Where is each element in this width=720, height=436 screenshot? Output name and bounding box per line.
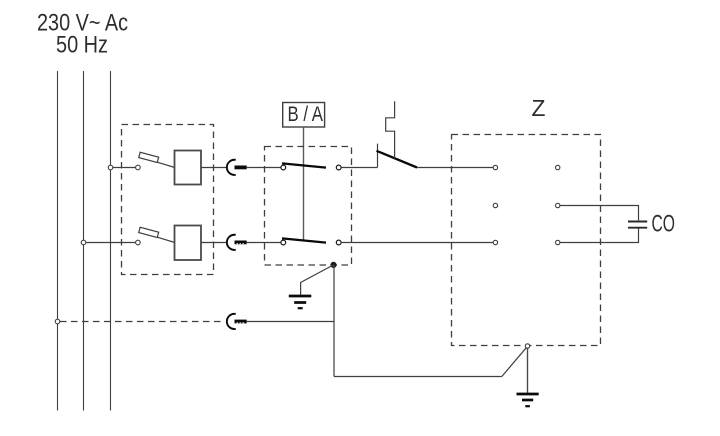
Z pin 2 left [493, 203, 497, 207]
switch SA1 left contact [281, 165, 286, 170]
B/A selector label box [283, 103, 325, 128]
bus line L1 [57, 71, 59, 411]
breaker F2 body [175, 226, 202, 261]
bus line L3 [110, 71, 112, 411]
Z pin 1 left [493, 165, 497, 169]
breaker F1 pivot contact [136, 165, 141, 170]
wire SA1 to switch S2 [341, 167, 377, 169]
wire Z earth pin to ground PE2 [527, 348, 529, 393]
Z earth pin [525, 344, 529, 348]
wire junction down [333, 265, 335, 377]
capacitor CO bottom plate [628, 227, 647, 229]
wire X2 to switch SA2 [247, 242, 281, 244]
connector X2 socket arc [227, 235, 236, 250]
wire F1 to connector X1 [201, 167, 227, 169]
breaker F1 blade [157, 162, 174, 167]
connector X1 pin [235, 166, 247, 170]
wire L2 to breaker F2 [86, 242, 135, 244]
switch S2 left post [377, 144, 379, 168]
connector X3 pin [235, 320, 247, 324]
switch SA2 right contact [336, 240, 341, 245]
wire diagonal to Z earth pin [502, 346, 528, 376]
wire S2 to Z [417, 167, 493, 169]
breaker F2 pivot contact [136, 240, 141, 245]
wire X3 to earth node [247, 321, 334, 323]
connector X3 socket arc [227, 314, 236, 329]
Z pin 2 right [556, 203, 560, 207]
switch SA2 blade [282, 238, 326, 242]
wire Z pin2 to capacitor CO [560, 206, 639, 221]
Z pin 3 left [493, 240, 497, 244]
breaker F2 fuse flag [139, 227, 159, 237]
switch SA1 right contact [336, 165, 341, 170]
breaker F2 blade [157, 237, 174, 242]
breaker enclosure dashed box [122, 125, 214, 275]
bus line L2 [83, 71, 85, 411]
wire F2 to connector X2 [201, 242, 227, 244]
wire X1 to switch SA1 [247, 167, 281, 169]
Z pin 3 right [556, 240, 560, 244]
wire SA2 to Z [341, 242, 493, 244]
B/A linkage rod [303, 127, 305, 241]
earth junction node [331, 262, 336, 267]
wire L3 to breaker F1 [113, 167, 135, 169]
node on L3 row1 [108, 165, 113, 170]
svg-text:50 Hz: 50 Hz [56, 32, 108, 59]
switch SA1 blade [282, 163, 326, 167]
svg-text:CO: CO [652, 210, 676, 237]
svg-text:Z: Z [532, 95, 546, 121]
selector switch dashed box [265, 147, 352, 266]
ground PE1 [289, 296, 312, 308]
breaker F1 body [175, 151, 202, 185]
ground PE2 [517, 394, 539, 406]
appliance Z dashed box [452, 135, 601, 346]
Z pin 1 right [556, 165, 560, 169]
wire capacitor CO to Z pin3 [560, 229, 639, 243]
wire bottom run [334, 376, 502, 378]
wire junction to ground PE1 [301, 265, 334, 295]
switch S2 actuator link [386, 101, 395, 158]
capacitor CO top plate [628, 221, 647, 223]
connector X2 pin [235, 241, 247, 245]
switch S2 blade [377, 151, 418, 168]
dashed wire L1 to connector X3 [60, 321, 225, 323]
connector X1 socket arc [227, 160, 236, 175]
svg-text:B / A: B / A [288, 103, 324, 126]
breaker F1 fuse flag [139, 152, 159, 162]
node on L1 row3 [55, 319, 60, 324]
node on L2 row2 [81, 240, 86, 245]
switch SA2 left contact [281, 240, 286, 245]
